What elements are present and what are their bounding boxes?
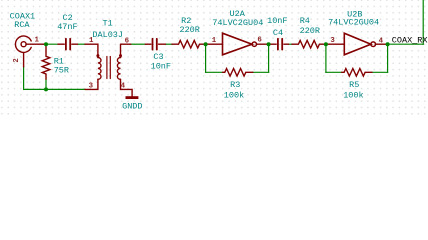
- svg-text:2: 2: [13, 58, 21, 62]
- svg-text:T1: T1: [102, 18, 112, 28]
- svg-text:1: 1: [212, 37, 217, 45]
- svg-text:100k: 100k: [343, 90, 363, 100]
- svg-text:10nF: 10nF: [267, 16, 287, 26]
- svg-text:4: 4: [121, 82, 126, 90]
- svg-text:C3: C3: [153, 52, 163, 62]
- svg-text:6: 6: [125, 37, 130, 45]
- svg-text:100k: 100k: [224, 90, 244, 100]
- svg-text:74LVC2GU04: 74LVC2GU04: [212, 18, 263, 28]
- svg-text:10nF: 10nF: [151, 62, 171, 72]
- svg-text:4: 4: [379, 37, 384, 45]
- svg-text:1: 1: [89, 37, 94, 45]
- svg-text:C4: C4: [273, 28, 283, 38]
- svg-text:R4: R4: [300, 16, 310, 26]
- svg-text:75R: 75R: [54, 65, 69, 75]
- svg-text:COAX_RX: COAX_RX: [392, 36, 428, 46]
- svg-text:R3: R3: [230, 80, 240, 90]
- svg-text:220R: 220R: [179, 25, 199, 35]
- svg-text:220R: 220R: [300, 26, 320, 36]
- svg-text:3: 3: [89, 82, 94, 90]
- svg-text:RCA: RCA: [14, 20, 30, 30]
- svg-text:3: 3: [330, 37, 335, 45]
- svg-text:74LVC2GU04: 74LVC2GU04: [328, 17, 379, 27]
- svg-text:GNDD: GNDD: [122, 102, 142, 112]
- svg-text:1: 1: [34, 36, 39, 44]
- svg-text:47nF: 47nF: [57, 22, 77, 32]
- svg-text:DAL03J: DAL03J: [92, 30, 123, 40]
- svg-text:R5: R5: [349, 80, 359, 90]
- svg-text:6: 6: [257, 37, 262, 45]
